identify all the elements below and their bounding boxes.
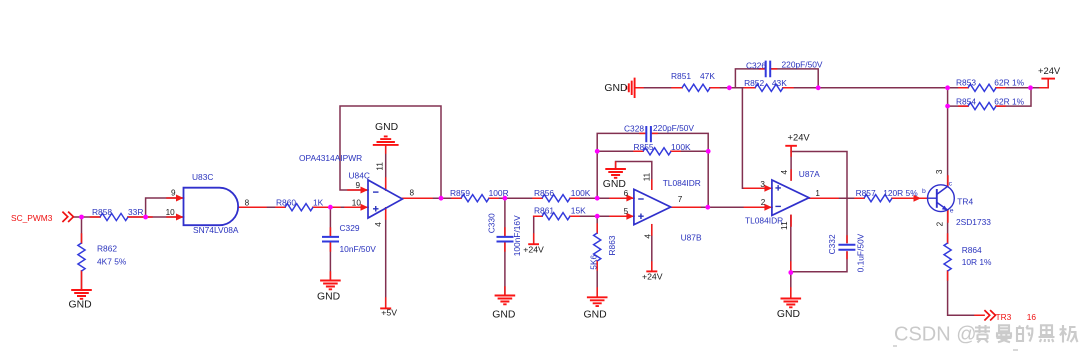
svg-text:OPA4314AIPWR: OPA4314AIPWR bbox=[299, 153, 362, 163]
svg-text:C330: C330 bbox=[486, 213, 496, 233]
svg-text:R853: R853 bbox=[956, 78, 976, 88]
svg-text:+24V: +24V bbox=[642, 272, 663, 282]
svg-text:220pF/50V: 220pF/50V bbox=[653, 123, 694, 133]
svg-text:10nF/50V: 10nF/50V bbox=[340, 244, 377, 254]
svg-text:C329: C329 bbox=[340, 223, 360, 233]
svg-text:62R 1%: 62R 1% bbox=[994, 78, 1024, 88]
svg-text:+24V: +24V bbox=[523, 244, 544, 254]
svg-text:1K: 1K bbox=[313, 198, 324, 208]
svg-text:R859: R859 bbox=[450, 188, 470, 198]
svg-text:100R: 100R bbox=[489, 188, 509, 198]
svg-text:4: 4 bbox=[644, 234, 653, 239]
svg-text:U83C: U83C bbox=[192, 172, 213, 182]
svg-text:R861: R861 bbox=[534, 206, 554, 216]
svg-text:62R 1%: 62R 1% bbox=[994, 97, 1024, 107]
svg-text:c: c bbox=[949, 181, 953, 188]
svg-text:47K: 47K bbox=[700, 71, 715, 81]
svg-text:GND: GND bbox=[375, 122, 398, 133]
svg-text:5K6: 5K6 bbox=[588, 254, 598, 269]
svg-text:2: 2 bbox=[935, 221, 944, 226]
svg-text:2SD1733: 2SD1733 bbox=[956, 217, 991, 227]
svg-text:3: 3 bbox=[935, 169, 944, 174]
svg-text:4K7 5%: 4K7 5% bbox=[97, 257, 127, 267]
svg-text:GND: GND bbox=[777, 309, 800, 320]
svg-text:R864: R864 bbox=[962, 245, 982, 255]
svg-text:120R 5%: 120R 5% bbox=[883, 188, 918, 198]
svg-text:SC_PWM3: SC_PWM3 bbox=[11, 213, 53, 223]
svg-text:5: 5 bbox=[624, 207, 629, 216]
svg-text:4: 4 bbox=[374, 222, 383, 227]
svg-text:C328: C328 bbox=[624, 124, 644, 134]
svg-text:R854: R854 bbox=[956, 97, 976, 107]
svg-text:R852: R852 bbox=[744, 78, 764, 88]
svg-text:GND: GND bbox=[584, 309, 607, 320]
svg-text:100K: 100K bbox=[671, 142, 691, 152]
svg-text:U87A: U87A bbox=[799, 169, 820, 179]
svg-text:10: 10 bbox=[352, 198, 362, 207]
svg-text:R851: R851 bbox=[671, 71, 691, 81]
svg-text:U84C: U84C bbox=[349, 171, 370, 181]
svg-text:0.1uF/50V: 0.1uF/50V bbox=[856, 233, 866, 272]
svg-text:GND: GND bbox=[492, 309, 515, 320]
svg-text:7: 7 bbox=[678, 195, 683, 204]
svg-text:3: 3 bbox=[760, 180, 765, 189]
svg-text:R858: R858 bbox=[92, 207, 112, 217]
svg-text:R856: R856 bbox=[534, 188, 554, 198]
svg-text:43K: 43K bbox=[772, 78, 787, 88]
svg-text:+5V: +5V bbox=[381, 308, 397, 318]
svg-text:11: 11 bbox=[780, 221, 789, 230]
svg-text:GND: GND bbox=[604, 83, 627, 94]
svg-text:11: 11 bbox=[376, 162, 385, 171]
svg-text:CSDN @: CSDN @ bbox=[894, 324, 977, 346]
svg-text:10: 10 bbox=[166, 208, 176, 217]
svg-text:16: 16 bbox=[1027, 312, 1037, 322]
svg-text:U87B: U87B bbox=[681, 233, 702, 243]
svg-text:e: e bbox=[950, 207, 954, 214]
svg-text:R863: R863 bbox=[607, 235, 617, 255]
svg-text:100nF/16V: 100nF/16V bbox=[512, 215, 522, 256]
svg-text:TL084IDR: TL084IDR bbox=[663, 178, 701, 188]
svg-text:9: 9 bbox=[171, 188, 176, 197]
svg-text:2: 2 bbox=[761, 198, 766, 207]
svg-text:9: 9 bbox=[356, 181, 361, 190]
svg-text:+24V: +24V bbox=[1038, 65, 1061, 76]
svg-text:+24V: +24V bbox=[788, 132, 811, 143]
svg-text:1: 1 bbox=[815, 189, 820, 198]
svg-text:TR4: TR4 bbox=[957, 196, 973, 206]
svg-text:C326: C326 bbox=[746, 60, 766, 70]
svg-text:GND: GND bbox=[69, 299, 92, 310]
svg-text:R862: R862 bbox=[97, 244, 117, 254]
svg-text:4: 4 bbox=[780, 170, 789, 175]
svg-text:10R 1%: 10R 1% bbox=[962, 257, 992, 267]
svg-text:R860: R860 bbox=[276, 198, 296, 208]
svg-text:b: b bbox=[922, 188, 926, 195]
svg-text:R855: R855 bbox=[634, 142, 654, 152]
svg-text:8: 8 bbox=[245, 199, 250, 208]
svg-text:11: 11 bbox=[643, 172, 652, 181]
svg-text:SN74LV08A: SN74LV08A bbox=[193, 225, 239, 235]
svg-text:C332: C332 bbox=[827, 234, 837, 254]
svg-text:100K: 100K bbox=[571, 188, 591, 198]
svg-text:GND: GND bbox=[603, 179, 626, 190]
svg-text:TR3: TR3 bbox=[996, 312, 1012, 322]
svg-text:TL084IDR: TL084IDR bbox=[745, 216, 783, 226]
svg-text:R857: R857 bbox=[856, 188, 876, 198]
svg-text:8: 8 bbox=[410, 188, 415, 197]
svg-text:220pF/50V: 220pF/50V bbox=[782, 60, 823, 70]
svg-text:GND: GND bbox=[317, 292, 340, 303]
svg-text:33R: 33R bbox=[128, 207, 143, 217]
svg-text:15K: 15K bbox=[571, 206, 586, 216]
